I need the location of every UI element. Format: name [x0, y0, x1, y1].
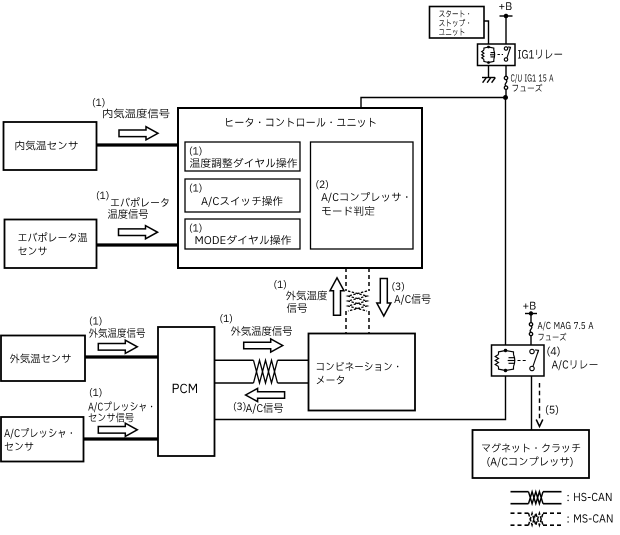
label: 外気温センサ — [10, 354, 71, 364]
label: フューズ (A/C MAG) — [538, 333, 566, 341]
wire: A/Cプレッシャ・センサ to PCM (thick) — [84, 437, 159, 440]
label: (1) temp dial — [190, 147, 202, 156]
label: C/U IG1 15 A — [511, 74, 553, 83]
box: MODEダイヤル操作 block — [185, 219, 300, 249]
label: (2) — [316, 180, 328, 189]
label: コンビネーション・ — [317, 362, 399, 371]
arrowhead: (5) V tip — [536, 420, 543, 427]
label: (A/Cコンプレッサ) — [487, 457, 572, 468]
wire: +B to IG1 relay switch — [505, 16, 507, 44]
label: 外気温度信号 (pcm-meter) — [231, 326, 292, 336]
label: センサ (evap) — [18, 247, 46, 256]
box: A/Cスイッチ操作 block — [185, 179, 300, 212]
box: start-stop unit (スタート・ストップ・ユニット) — [430, 7, 485, 39]
wire: IG1 relay coil to ground — [488, 66, 490, 78]
label: ストップ・ line2 — [439, 19, 469, 27]
wire: IG1 relay to fuse — [505, 66, 507, 77]
wire: 内気温センサ to heater unit (thick) — [97, 143, 179, 146]
wire: +B to A/C MAG fuse — [530, 314, 532, 323]
label: マグネット・クラッチ — [482, 443, 580, 453]
label: (5) — [546, 405, 558, 415]
label: IG1リレー — [518, 50, 562, 59]
fuse: A/C MAG 7.5A fuse — [529, 323, 532, 336]
box: 内気温センサ (cabin air temp sensor) — [4, 122, 97, 170]
box: マグネット・クラッチ (A/Cコンプレッサ) — [473, 430, 590, 478]
label: モード判定 — [322, 206, 374, 216]
link: IG1 relay coil-contact dashed — [498, 54, 504, 56]
arrow: 内気温度信号 signal arrow — [119, 127, 158, 140]
arrow: A/C信号 down arrow — [377, 279, 391, 317]
label: A/Cコンプレッサ・ — [321, 192, 407, 203]
label: : HS-CAN — [567, 493, 611, 501]
label: : MS-CAN — [567, 514, 612, 522]
label: A/C MAG 7.5 A — [538, 322, 594, 331]
label: エバポレータ温 — [18, 232, 87, 242]
label: 内気温センサ — [16, 141, 78, 151]
relay switch: A/C relay contacts — [530, 349, 534, 370]
label: PCM — [173, 384, 197, 394]
wire: 外気温センサ to PCM (thick) — [85, 355, 158, 358]
label: +B (A/C MAG) — [523, 302, 535, 310]
ground: IG1 relay coil ground — [482, 78, 495, 83]
legend: HS-CAN twisted pair symbol — [511, 492, 562, 504]
arrow: 外気温度信号 to PCM arrow — [98, 340, 137, 353]
label: ユニット line3 — [439, 28, 464, 35]
label: A/Cプレッシャ・ (sig) — [88, 402, 152, 413]
box: A/C compressor mode determination block — [311, 142, 414, 249]
label: +B (battery feed, top) — [499, 2, 511, 10]
label: (3) meter-pcm — [234, 402, 246, 411]
label: (1) naiki — [93, 98, 105, 107]
wire: (5) dashed control flow — [539, 383, 541, 420]
wire: A/C relay switch to magnet clutch — [531, 376, 533, 430]
wire: IG1 feed down to A/C relay coil — [505, 98, 507, 346]
arrow: A/Cプレッシャ・センサ信号 arrow — [98, 423, 137, 436]
arrow: 外気温度信号 PCM to meter — [244, 339, 283, 352]
label: A/C信号 (down) — [394, 294, 430, 305]
link: A/C relay coil-contact dashed — [518, 360, 528, 362]
label: 温度調整ダイヤル操作 — [190, 158, 297, 168]
label: 内気温度信号 — [103, 109, 169, 119]
wire: junction to heater control unit — [361, 98, 506, 109]
fuse: C/U IG1 15A fuse — [504, 76, 507, 89]
wire: start-stop unit to IG1 relay coil — [484, 21, 489, 44]
label: メータ — [317, 376, 344, 385]
label: A/Cスイッチ操作 — [201, 196, 282, 207]
label: MODEダイヤル操作 — [196, 235, 292, 245]
label: A/C信号 (meter-pcm) — [246, 403, 283, 414]
wire: A/C relay coil to PCM — [215, 376, 506, 420]
box: heater control unit (ヒータ・コントロール・ユニット) — [178, 108, 422, 268]
label: (1) mode dial — [190, 224, 202, 233]
label: (1) pcm-meter — [220, 314, 232, 323]
label: スタート・ line1 — [439, 10, 469, 17]
box: コンビネーション・メータ (combination meter) — [309, 334, 416, 411]
label: A/Cプレッシャ・ — [4, 428, 72, 439]
wire: fuse to junction — [505, 89, 507, 97]
label: エバポレータ — [111, 197, 169, 207]
terminal: +B A/C MAG — [525, 313, 537, 315]
box: 温度調整ダイヤル操作 block — [185, 142, 300, 171]
label: ヒータ・コントロール・ユニット title — [226, 118, 375, 128]
legend: MS-CAN twisted pair symbol — [511, 513, 562, 525]
relay switch: IG1 relay contacts — [504, 47, 507, 61]
arrow: エバポレータ温度信号 signal arrow — [119, 226, 158, 239]
label: (3) down — [392, 282, 404, 291]
relay box: IG1 relay — [478, 44, 516, 66]
label: (1) evap — [97, 191, 109, 200]
relay coil: IG1 relay coil — [482, 47, 495, 63]
label: フューズ (C/U IG1) — [513, 84, 543, 92]
label: (1) gaiki — [90, 317, 102, 326]
box: 外気温センサ (ambient temp sensor) — [1, 336, 85, 382]
arrow: 外気温度信号 up arrow — [330, 278, 344, 316]
arrow: A/C信号 meter to PCM — [246, 388, 285, 401]
wire: エバポレータ温センサ to heater unit (thick) — [97, 243, 179, 246]
box: A/Cプレッシャ・センサ (A/C pressure sensor) — [1, 417, 84, 462]
label: A/Cリレー — [552, 360, 598, 370]
box: PCM — [158, 327, 215, 456]
label: センサ信号 — [89, 413, 134, 423]
wire: A/C MAG fuse to relay — [530, 336, 532, 345]
label: (1) press — [90, 388, 102, 397]
label: 外気温度信号 (to PCM) — [89, 328, 145, 338]
label: 外気温度 (up) — [286, 291, 327, 301]
box: エバポレータ温センサ (evaporator temp sensor) — [5, 220, 97, 269]
bus: HS-CAN twisted pair PCM-meter — [215, 360, 309, 383]
label: 温度信号 (evap) — [108, 209, 148, 219]
relay box: A/C relay — [492, 345, 545, 376]
label: (4) — [547, 347, 559, 357]
label: 信号 (up) — [287, 303, 307, 313]
bus: MS-CAN twisted pair heater-meter — [346, 268, 369, 334]
relay coil: A/C relay coil — [495, 351, 515, 371]
label: (1) ac switch — [190, 184, 202, 193]
junction: IG1 feed node — [503, 95, 508, 100]
label: (1) up — [274, 280, 286, 289]
terminal: +B top — [500, 15, 513, 17]
label: センサ (press) — [5, 442, 33, 451]
